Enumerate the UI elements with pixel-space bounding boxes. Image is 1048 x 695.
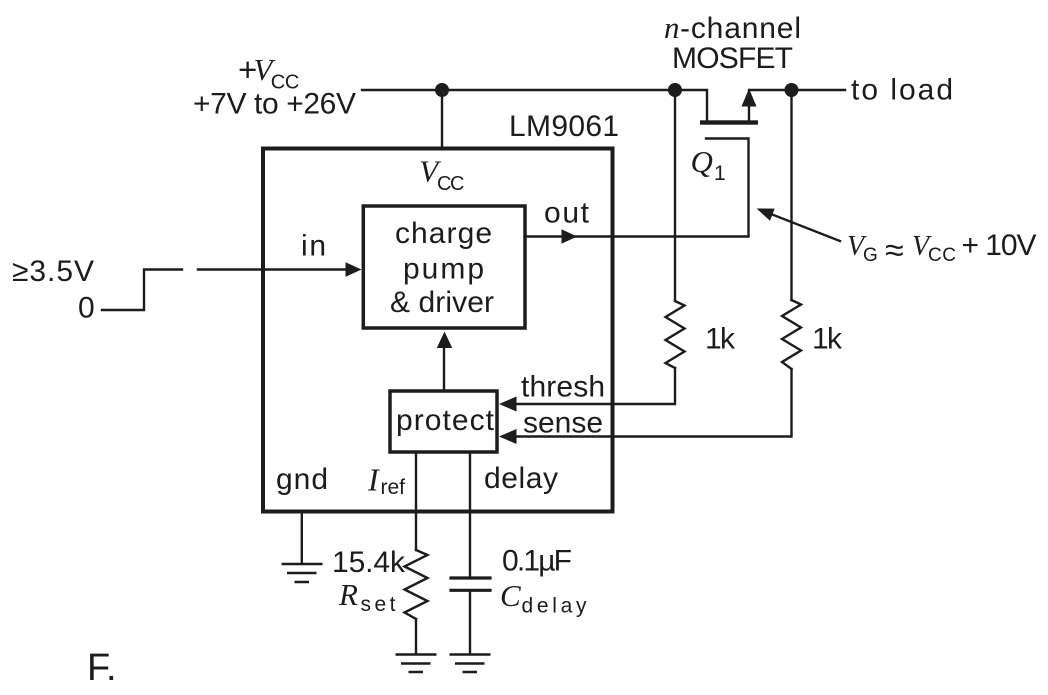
wire: input step source to in pin — [102, 270, 346, 311]
junction: Vcc pin node — [435, 83, 449, 97]
svg-text:0.1µF: 0.1µF — [502, 545, 572, 578]
wire: Iref pin to Rset — [415, 453, 417, 550]
wire: Rset bottom lead to ground — [415, 619, 417, 653]
svg-text:≥3.5V: ≥3.5V — [12, 255, 94, 288]
svg-text:charge: charge — [395, 217, 492, 250]
svg-text:delay: delay — [484, 462, 558, 495]
wire: gnd pin to ground — [301, 513, 303, 563]
svg-text:n-channel: n-channel — [664, 10, 801, 45]
transistor Q1 MOSFET channel bar — [700, 120, 758, 124]
arrowhead: in pin — [346, 262, 362, 277]
arrowhead: sense — [499, 429, 517, 444]
svg-text:out: out — [544, 197, 590, 230]
IC LM9061 box — [263, 149, 613, 512]
wire: out to MOSFET gate — [527, 139, 749, 237]
svg-text:1k: 1k — [705, 323, 736, 356]
annotation arrow line: VG note — [762, 211, 840, 242]
svg-text:F.: F. — [87, 647, 117, 689]
svg-text:to load: to load — [851, 74, 953, 107]
ground: Rset earth symbol — [396, 655, 437, 673]
svg-text:0: 0 — [78, 292, 95, 325]
svg-text:protect: protect — [396, 404, 495, 437]
svg-text:LM9061: LM9061 — [509, 110, 619, 143]
svg-text:+7V to +26V: +7V to +26V — [193, 88, 356, 121]
wire: drain sense drop to left 1k resistor — [674, 90, 676, 301]
svg-text:& driver: & driver — [390, 286, 494, 319]
arrowhead: VG annotation — [757, 209, 775, 221]
wire: protect to charge pump — [443, 345, 445, 390]
arrowhead: thresh — [499, 397, 517, 412]
junction: drain node — [668, 83, 682, 97]
transistor Q1 MOSFET source arrow — [748, 107, 750, 122]
wire: +Vcc supply rail left segment to MOSFET drain — [362, 90, 707, 121]
ground: gnd pin earth symbol — [282, 564, 323, 582]
svg-text:pump: pump — [403, 253, 484, 286]
wire: source sense drop to right 1k resistor — [790, 90, 792, 300]
arrowhead: protect to charge pump — [437, 332, 452, 349]
wire: delay pin to Cdelay — [469, 453, 471, 576]
capacitor Cdelay plates — [451, 578, 490, 590]
svg-text:15.4k: 15.4k — [332, 546, 406, 579]
wire: Cdelay bottom lead to ground — [469, 592, 471, 653]
wire: right 1k to sense pin — [517, 369, 792, 437]
ground: Cdelay earth symbol — [450, 655, 491, 673]
svg-text:gnd: gnd — [276, 463, 328, 496]
svg-text:sense: sense — [523, 407, 603, 440]
wire: MOSFET source to load rail — [749, 89, 845, 91]
svg-text:MOSFET: MOSFET — [672, 42, 793, 75]
resistor Rset 15.4k (zigzag) — [405, 550, 428, 619]
junction: load node — [785, 83, 799, 97]
svg-text:thresh: thresh — [521, 371, 605, 404]
block: protect box — [390, 391, 497, 452]
svg-text:in: in — [301, 230, 326, 263]
resistor R 1k left (zigzag) — [666, 301, 685, 368]
block: charge pump and driver box — [363, 206, 525, 328]
wire: left 1k to thresh pin — [517, 368, 675, 404]
resistor R 1k right (zigzag) — [782, 300, 801, 369]
arrowhead: out — [562, 229, 578, 244]
wire: Vcc stub into LM9061 — [441, 90, 443, 147]
svg-text:1k: 1k — [812, 323, 843, 356]
